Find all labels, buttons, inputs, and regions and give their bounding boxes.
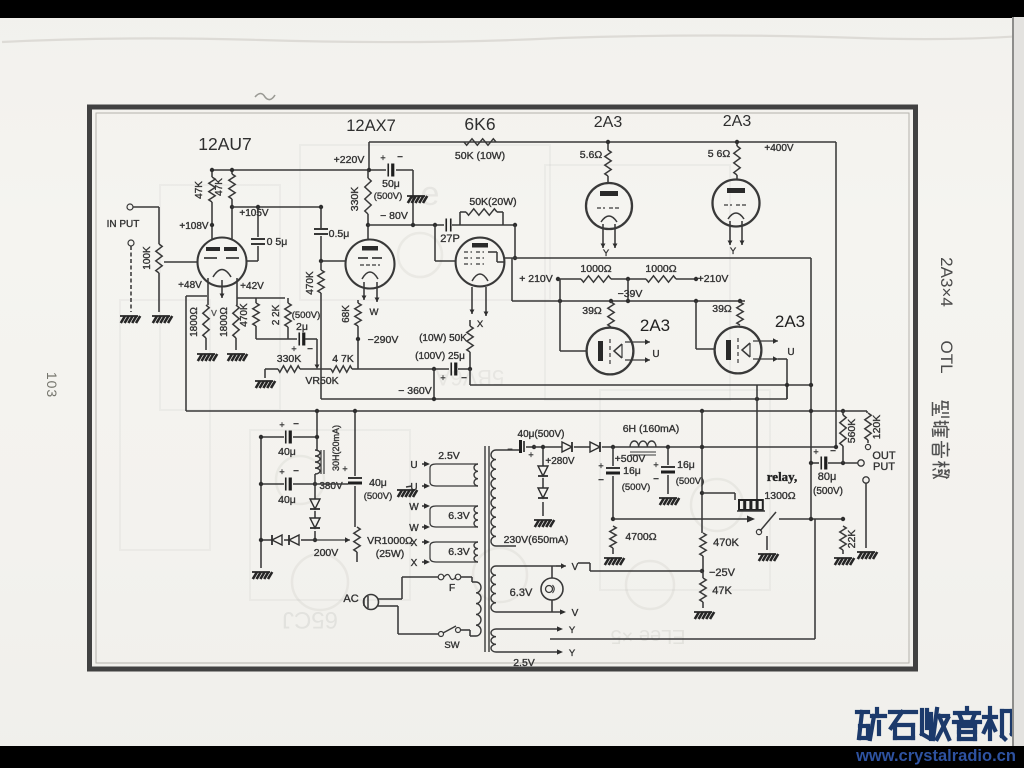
svg-text:380V: 380V [319, 481, 343, 492]
svg-text:2μ: 2μ [296, 321, 308, 333]
svg-text:X: X [411, 538, 418, 549]
svg-text:1800Ω: 1800Ω [189, 307, 200, 337]
svg-text:6.3V: 6.3V [448, 510, 470, 522]
svg-text:relay,: relay, [767, 469, 797, 484]
svg-text:47K: 47K [194, 181, 205, 199]
svg-text:2 2K: 2 2K [271, 304, 282, 325]
svg-text:2.5V: 2.5V [513, 657, 535, 669]
svg-text:+400V: +400V [764, 143, 794, 154]
svg-text:+48V: +48V [178, 280, 202, 291]
svg-text:1300Ω: 1300Ω [764, 490, 795, 502]
svg-text:Y: Y [569, 648, 576, 659]
svg-text:47K: 47K [214, 178, 225, 196]
svg-text:e: e [421, 175, 440, 213]
svg-text:100K: 100K [142, 246, 153, 270]
svg-text:W: W [409, 502, 419, 513]
svg-text:40μ: 40μ [369, 477, 387, 489]
svg-text:+ 210V: + 210V [519, 273, 553, 285]
svg-text:−25V: −25V [709, 567, 736, 579]
svg-text:VR1000Ω: VR1000Ω [367, 535, 413, 547]
svg-text:+: + [598, 461, 603, 471]
svg-text:0.5μ: 0.5μ [329, 228, 350, 240]
svg-text:− 80V: − 80V [380, 210, 408, 222]
svg-text:ELee ×5: ELee ×5 [610, 625, 685, 647]
svg-text:12AU7: 12AU7 [198, 134, 252, 154]
svg-text:−: − [461, 373, 467, 384]
svg-text:+: + [653, 460, 658, 470]
svg-text:2A3: 2A3 [594, 114, 623, 131]
svg-text:330K: 330K [277, 353, 302, 365]
svg-text:− 360V: − 360V [398, 385, 432, 397]
svg-text:39Ω: 39Ω [582, 305, 602, 317]
svg-text:VR50K: VR50K [305, 375, 338, 387]
svg-text:+: + [279, 467, 284, 477]
svg-text:40μ: 40μ [278, 494, 296, 506]
svg-text:U: U [652, 349, 659, 360]
svg-text:230V(650mA): 230V(650mA) [504, 534, 569, 546]
svg-text:(500V): (500V) [676, 476, 705, 487]
svg-text:PUT: PUT [873, 461, 895, 473]
svg-text:(10W) 50K: (10W) 50K [419, 333, 467, 344]
svg-text:30H(20mA): 30H(20mA) [331, 425, 341, 471]
svg-text:−290V: −290V [368, 334, 399, 346]
svg-text:2.5V: 2.5V [438, 450, 460, 462]
svg-text:+220V: +220V [334, 154, 365, 166]
svg-text:W: W [409, 523, 419, 534]
svg-text:Y: Y [730, 246, 737, 257]
svg-text:16μ: 16μ [677, 459, 695, 471]
svg-text:(500V): (500V) [364, 491, 393, 502]
svg-text:27P: 27P [440, 233, 460, 245]
svg-text:6K6: 6K6 [464, 114, 495, 134]
svg-text:2A3×4: 2A3×4 [937, 257, 956, 307]
svg-text:+108V: +108V [179, 221, 209, 232]
svg-text:47K: 47K [712, 585, 732, 597]
svg-text:40μ: 40μ [278, 446, 296, 458]
svg-text:U: U [410, 460, 417, 471]
svg-text:50μ: 50μ [382, 178, 400, 190]
svg-text:1800Ω: 1800Ω [219, 307, 230, 337]
svg-text:Y: Y [569, 625, 576, 636]
svg-text:65CJ: 65CJ [282, 606, 338, 633]
svg-text:V: V [211, 308, 217, 318]
svg-text:(25W): (25W) [376, 548, 405, 560]
svg-text:−: − [653, 474, 659, 485]
svg-text:470K: 470K [239, 303, 250, 327]
svg-text:4 7K: 4 7K [332, 353, 354, 365]
svg-text:80μ: 80μ [818, 471, 837, 483]
svg-text:+: + [528, 450, 533, 460]
svg-text:470K: 470K [713, 537, 739, 549]
svg-text:+: + [440, 373, 445, 383]
svg-text:+105V: +105V [239, 208, 269, 219]
svg-text:16μ: 16μ [623, 465, 641, 477]
svg-text:W: W [370, 307, 379, 318]
svg-text:330K: 330K [349, 187, 361, 212]
svg-text:+: + [279, 420, 284, 430]
svg-text:12AX7: 12AX7 [346, 117, 396, 135]
svg-text:+: + [813, 447, 818, 457]
svg-text:50K (10W): 50K (10W) [455, 150, 505, 162]
svg-text:+: + [342, 464, 347, 474]
svg-text:(500V): (500V) [374, 191, 403, 202]
svg-text:0 5μ: 0 5μ [267, 236, 288, 248]
svg-text:2A3: 2A3 [723, 113, 752, 130]
svg-text:(500V): (500V) [622, 482, 651, 493]
svg-text:200V: 200V [314, 547, 339, 559]
svg-text:OTL: OTL [937, 340, 956, 373]
svg-text:(100V) 25μ: (100V) 25μ [415, 351, 465, 362]
svg-text:68K: 68K [341, 305, 352, 323]
svg-text:39Ω: 39Ω [712, 303, 732, 315]
svg-text:−: − [830, 446, 836, 457]
svg-text:(500V): (500V) [813, 486, 843, 497]
svg-text:560K: 560K [846, 419, 858, 444]
svg-text:AC: AC [343, 593, 358, 605]
svg-text:V: V [572, 562, 579, 573]
svg-text:−: − [307, 344, 313, 355]
svg-text:(500V): (500V) [292, 310, 321, 321]
svg-text:4700Ω: 4700Ω [625, 531, 656, 543]
svg-text:470K: 470K [305, 271, 316, 295]
svg-text:+210V: +210V [698, 273, 729, 285]
svg-text:22K: 22K [846, 530, 858, 549]
svg-text:2A3: 2A3 [640, 316, 670, 335]
svg-text:+: + [380, 153, 385, 163]
svg-text:U: U [787, 347, 794, 358]
svg-text:1000Ω: 1000Ω [580, 263, 611, 275]
svg-text:6H (160mA): 6H (160mA) [623, 423, 680, 435]
svg-text:V: V [572, 608, 579, 619]
svg-text:F: F [449, 583, 455, 594]
svg-text:−: − [598, 475, 604, 486]
svg-text:1000Ω: 1000Ω [645, 263, 676, 275]
svg-text:−: − [293, 419, 299, 430]
svg-text:X: X [477, 319, 484, 330]
svg-text:2A3: 2A3 [775, 312, 805, 331]
svg-text:+280V: +280V [545, 456, 575, 467]
svg-text:IN PUT: IN PUT [107, 219, 140, 230]
svg-text:−39V: −39V [618, 288, 643, 300]
svg-text:−: − [293, 466, 299, 477]
svg-text:50K(20W): 50K(20W) [469, 196, 516, 208]
svg-text:+42V: +42V [240, 281, 264, 292]
svg-text:5 6Ω: 5 6Ω [708, 148, 731, 160]
svg-text:X: X [411, 558, 418, 569]
svg-text:SW: SW [444, 640, 459, 651]
svg-text:120K: 120K [871, 415, 883, 440]
svg-text:6.3V: 6.3V [448, 546, 470, 558]
svg-text:−: − [507, 444, 512, 454]
svg-text:5.6Ω: 5.6Ω [580, 149, 603, 161]
svg-text:40μ(500V): 40μ(500V) [518, 429, 565, 440]
svg-text:−: − [397, 152, 403, 163]
svg-text:6.3V: 6.3V [510, 587, 533, 599]
